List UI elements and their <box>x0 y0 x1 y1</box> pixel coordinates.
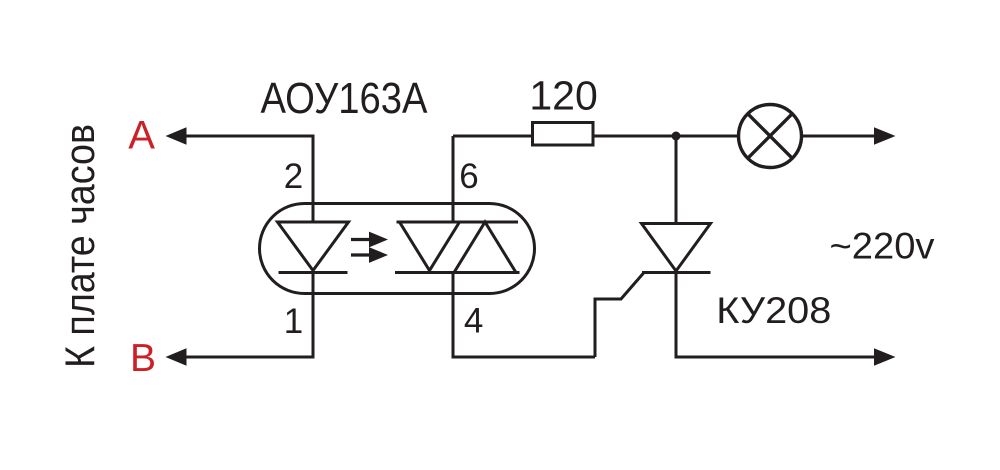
wire pin4 vertical <box>452 273 455 358</box>
wire top rail (pin6 to resistor) <box>453 135 531 138</box>
wire bottom middle rail (pin4 to gate riser) <box>452 356 596 359</box>
resistor R1 (120) <box>533 123 594 146</box>
svg-text:~220v: ~220v <box>830 226 936 267</box>
thyristor cathode vertical wire <box>675 273 678 358</box>
LED anode triangle <box>278 222 349 271</box>
LED cathode bar <box>279 271 348 274</box>
thyristor VS1 triangle <box>642 224 711 272</box>
svg-text:А: А <box>128 114 155 158</box>
svg-text:6: 6 <box>459 157 478 196</box>
svg-text:1: 1 <box>284 302 303 341</box>
light emission arrow (lower) <box>351 247 388 263</box>
lamp HL1 (circle with cross) <box>739 105 802 168</box>
svg-text:120: 120 <box>529 72 597 118</box>
wire pin6 vertical <box>452 136 455 222</box>
light emission arrow (upper) <box>351 232 388 248</box>
triac up triangle <box>454 222 516 273</box>
optocoupler U1 body (stadium outline) <box>260 204 535 294</box>
wire pin1 vertical <box>312 273 315 358</box>
triac bottom bar <box>395 271 520 274</box>
svg-text:4: 4 <box>464 301 483 340</box>
svg-text:К плате часов: К плате часов <box>56 124 103 368</box>
triac down triangle <box>400 222 460 271</box>
wire lamp to right arrow (top) <box>802 127 896 144</box>
wire bottom right rail with right arrow <box>675 348 896 365</box>
svg-text:КУ208: КУ208 <box>716 290 831 331</box>
wire B (bottom-left rail with left arrow) <box>166 348 315 365</box>
wire junction down to thyristor <box>675 136 678 224</box>
svg-text:АОУ163А: АОУ163А <box>261 74 429 123</box>
thyristor cathode bar <box>642 271 711 274</box>
wire A (top-left rail with left arrow) <box>166 127 315 144</box>
thyristor gate wire <box>595 273 644 358</box>
svg-text:2: 2 <box>284 157 303 196</box>
wire pin2 vertical <box>312 136 315 222</box>
triac top bar <box>397 221 519 224</box>
wire resistor to lamp <box>595 135 739 138</box>
svg-text:В: В <box>130 337 156 380</box>
junction node <box>672 132 681 141</box>
